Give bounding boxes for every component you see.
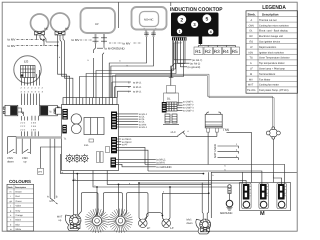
svg-text:CMV: CMV: [7, 157, 13, 160]
suppressor output wire: [272, 139, 274, 182]
feed strip1 from box top: [241, 172, 243, 183]
svg-text:MC: MC: [65, 27, 69, 30]
not used line 1: [218, 146, 239, 148]
svg-text:Description: Description: [15, 186, 27, 189]
svg-text:Gas ignition device: Gas ignition device: [259, 41, 281, 44]
svg-text:CMV: CMV: [22, 157, 28, 160]
cooktop panel: [171, 13, 219, 37]
terminal block M outline: [240, 183, 291, 211]
wire PT up: [41, 147, 62, 168]
svg-text:RP: RP: [95, 23, 99, 26]
oven lamp LF1: [139, 183, 148, 228]
cooling fan MVT: [65, 215, 81, 231]
svg-text:Blue: Blue: [16, 223, 21, 226]
relay RL2: [100, 152, 103, 163]
EG wires to plugs: [22, 94, 40, 106]
svg-text:to CN07-2: to CN07-2: [183, 104, 194, 107]
svg-text:TS+RG: TS+RG: [247, 89, 255, 92]
wires from MC2 base: [58, 35, 65, 72]
fan MV1 blower: [196, 219, 211, 234]
MV3 wires up: [118, 184, 120, 216]
connector CN01 (left): [62, 109, 68, 120]
svg-text:5: 5: [206, 17, 209, 23]
svg-text:PT: PT: [39, 171, 43, 174]
svg-text:to CMV-1: to CMV-1: [122, 138, 132, 141]
wire to M-L1 row2: [115, 87, 131, 98]
svg-text:to M-L1: to M-L1: [133, 91, 142, 94]
svg-text:Oven Temperature Selector: Oven Temperature Selector: [259, 57, 290, 60]
svg-text:LF: LF: [250, 46, 253, 49]
svg-text:MC: MC: [44, 27, 48, 30]
svg-text:to M-L1: to M-L1: [133, 86, 142, 89]
DL base line: [163, 124, 179, 126]
svg-text:n: n: [94, 184, 95, 187]
edge connector P left of board: [54, 108, 62, 114]
wires CN04 to labels: [117, 139, 121, 145]
dash-dot wire RP to MV: [80, 39, 92, 41]
svg-text:MV: MV: [249, 78, 253, 81]
plug interconnect wires: [18, 108, 24, 116]
ground hatch: [227, 208, 233, 211]
svg-text:IGN: IGN: [249, 51, 254, 54]
vertical mark line x118: [118, 2, 120, 28]
wire to M-L1 row1: [112, 82, 131, 98]
svg-text:2 2 2: 2 2 2: [20, 121, 26, 124]
interference suppressor: [266, 127, 280, 139]
connector CN05 (right bottom): [111, 158, 117, 168]
svg-text:LEGENDA: LEGENDA: [262, 5, 286, 11]
svg-text:White: White: [16, 228, 22, 231]
mains pair to suppressor: [113, 74, 275, 127]
burner 5: [203, 14, 212, 23]
wires CN05 to labels: [116, 159, 156, 167]
burner 4: [208, 29, 213, 34]
svg-text:to M-L1: to M-L1: [133, 81, 142, 84]
display unit DL body: [164, 93, 179, 105]
bridge LF2 to MV1: [162, 192, 208, 194]
plug P76: [40, 105, 60, 116]
bridge MVT-MV2: [78, 193, 98, 216]
svg-text:2: 2: [180, 17, 183, 23]
svg-text:R2: R2: [205, 49, 211, 54]
cooktop connector strip: [172, 37, 187, 40]
wires below plugs group1: [21, 116, 27, 121]
svg-text:down: down: [187, 222, 194, 225]
varistor V3: [80, 154, 89, 163]
wires strip to DL: [169, 41, 185, 86]
transformer T1: [84, 118, 104, 135]
svg-text:EG: EG: [250, 41, 254, 44]
tiny colour code letters: [59, 56, 215, 194]
svg-text:7S: 7S: [49, 110, 52, 113]
DL connector: [162, 102, 167, 113]
wire thermostat leg1 to comb: [109, 37, 146, 98]
wire to M-GROUND: [97, 47, 103, 49]
svg-text:R1: R1: [195, 49, 201, 54]
svg-text:1: 1: [179, 30, 181, 34]
burner 3: [191, 21, 198, 28]
svg-text:EC: EC: [250, 35, 254, 38]
svg-text:2 2 2: 2 2 2: [20, 129, 26, 132]
display unit DL top: [167, 86, 176, 94]
wire MC junction down: [46, 42, 59, 72]
svg-text:3 3 3 3 3 3 3: 3 3 3 3 3 3 3: [21, 90, 44, 93]
wire screw to ring: [229, 194, 231, 201]
thermo probe PT box: [38, 168, 44, 174]
wire to R4-7: [174, 43, 192, 60]
wire TSS to terminal block: [227, 132, 252, 182]
mains gray bus left: [16, 136, 61, 139]
varistor V1: [65, 154, 74, 163]
svg-text:R4: R4: [223, 49, 229, 54]
svg-text:DL: DL: [167, 97, 171, 101]
svg-text:sA C: sA C: [171, 131, 176, 134]
svg-text:Electronic Gauge unit: Electronic Gauge unit: [259, 35, 283, 38]
wire to M-L1 row3: [117, 91, 131, 97]
svg-text:R3: R3: [214, 49, 220, 54]
svg-text:Cooling fan motor: Cooling fan motor: [259, 84, 279, 87]
svg-text:7S: 7S: [11, 110, 14, 113]
svg-text:LF: LF: [170, 226, 174, 230]
ground terminal ring: [226, 200, 233, 207]
suppressor to strip3: [273, 175, 281, 185]
svg-text:Terminal Block: Terminal Block: [259, 73, 276, 76]
svg-text:to CN07-4: to CN07-4: [183, 110, 194, 113]
oven lamp LF2: [162, 187, 171, 228]
relay R2: [204, 47, 213, 55]
svg-text:M: M: [260, 211, 265, 217]
svg-text:to MV: to MV: [72, 38, 80, 42]
relay R3: [214, 47, 222, 55]
motor MC1 base: [35, 32, 45, 36]
svg-text:Fast plates Temp. (PT100): Fast plates Temp. (PT100): [259, 89, 289, 92]
legend rows: [247, 19, 290, 92]
micro switch CMV up: [22, 138, 31, 154]
not used line 2: [218, 151, 239, 153]
DL feet: [165, 114, 177, 123]
svg-text:CMV: CMV: [249, 24, 255, 27]
svg-text:down: down: [7, 160, 14, 163]
svg-text:Electr. card - Back display: Electr. card - Back display: [259, 30, 289, 33]
svg-text:Top temperature limiter: Top temperature limiter: [259, 62, 285, 65]
ignition device EG circle: [14, 56, 41, 83]
svg-text:A: A: [47, 195, 49, 198]
connector CN02 (left lower): [62, 125, 67, 134]
terminal strip L1: [242, 183, 251, 209]
fuse F1: [106, 147, 110, 153]
wires into bus: [21, 131, 38, 136]
svg-text:Orange: Orange: [16, 214, 24, 217]
svg-text:to GROUND: to GROUND: [157, 166, 172, 169]
wires CN03 to labels: [117, 114, 138, 127]
svg-text:TS: TS: [250, 57, 254, 60]
wire MC bundle to comb: [58, 72, 73, 98]
svg-text:m: m: [10, 191, 12, 194]
DL hatched block: [167, 102, 178, 111]
svg-text:Ignition block switches: Ignition block switches: [259, 51, 285, 54]
svg-text:Green: Green: [16, 200, 23, 203]
colours table frame: [7, 184, 34, 231]
svg-text:GROUND: GROUND: [220, 211, 232, 215]
svg-text:Thermal cut-out: Thermal cut-out: [259, 19, 277, 22]
capacitor C1: [71, 114, 81, 124]
svg-text:COLOURS: COLOURS: [9, 179, 31, 184]
svg-text:MVT: MVT: [248, 84, 254, 87]
svg-text:to CMV-2: to CMV-2: [122, 141, 132, 144]
wire to R4-2: [178, 41, 190, 63]
svg-text:Cooling fan micro switches: Cooling fan micro switches: [259, 24, 289, 27]
relay R5: [232, 47, 240, 55]
connector CN04 (right mid): [111, 137, 117, 153]
colours rows: [10, 191, 24, 232]
connector CN03 (right top): [111, 112, 117, 130]
dash-dot wire to MV 1: [17, 38, 45, 40]
run h4: [107, 171, 211, 185]
svg-text:Violet: Violet: [16, 205, 22, 208]
mains line right of board: [119, 135, 217, 137]
svg-text:2 2 2: 2 2 2: [20, 125, 26, 128]
varistor V2: [73, 154, 82, 163]
svg-text:Simb: Simb: [8, 186, 14, 189]
labels CN03 group: [139, 113, 148, 129]
feed strip1 from lamp line: [139, 182, 242, 184]
svg-text:to MV: to MV: [8, 44, 16, 48]
svg-text:R5: R5: [232, 49, 238, 54]
not used line 3: [218, 158, 239, 160]
enclosure box bottom right: [211, 172, 296, 218]
wires below plugs group2: [32, 116, 38, 121]
svg-text:2 2 2 2 2 2 2: 2 2 2 2 2 2 2: [21, 87, 44, 90]
svg-text:LF: LF: [147, 226, 151, 230]
feed strip2: [148, 171, 262, 184]
svg-text:F3A: F3A: [84, 144, 89, 147]
dash-dot wire to MV 2: [17, 45, 58, 47]
thermostat NO+NC inner: [140, 12, 159, 27]
wire CN04 down a: [117, 147, 145, 164]
thermostat TS box: [205, 112, 222, 128]
svg-text:to M-L1: to M-L1: [139, 126, 148, 129]
svg-text:g: g: [127, 64, 128, 67]
safety cutout A contacts: [178, 131, 186, 137]
labels CN04 group: [122, 138, 132, 147]
MV1 mount: [201, 228, 210, 232]
svg-text:M: M: [250, 73, 252, 76]
relay R1: [194, 47, 203, 55]
burner 1: [177, 29, 182, 34]
wires from MC1 base: [37, 35, 47, 46]
svg-text:to CN07-1: to CN07-1: [183, 101, 194, 104]
motor MC2: [51, 13, 70, 32]
svg-text:up: up: [24, 160, 27, 163]
feed strip3: [145, 165, 285, 185]
svg-text:2 4 8: 2 4 8: [31, 125, 37, 128]
wire cooktop strip to comb b: [86, 41, 176, 98]
thermostat neck legs: [144, 29, 157, 38]
terminal strip N: [259, 183, 268, 209]
svg-text:Simb.: Simb.: [248, 12, 256, 16]
wire RP left stub to comb: [93, 58, 95, 98]
svg-text:INDUCTION COOKTOP: INDUCTION COOKTOP: [170, 7, 223, 13]
wires DL to CN07 labels: [177, 103, 183, 111]
bridge MV3-LF1: [124, 193, 148, 219]
fan motor MV2: [85, 209, 109, 233]
wire TS foot down: [207, 136, 209, 164]
vertical mark line x170: [170, 2, 172, 6]
svg-text:NO+NC: NO+NC: [144, 19, 154, 22]
svg-text:Black: Black: [16, 219, 22, 222]
power board outline: [62, 105, 119, 171]
MVT mount: [70, 224, 80, 228]
feeds to MT switch: [50, 139, 55, 198]
run h3: [93, 171, 228, 188]
svg-text:LF: LF: [250, 68, 253, 71]
RP terminal stubs: [96, 33, 105, 44]
wire to ground: [181, 41, 188, 67]
thermostat terminals: [144, 33, 156, 35]
bridge LF1-LF2: [147, 213, 163, 216]
svg-text:Description: Description: [262, 12, 279, 16]
TS feet: [207, 128, 210, 132]
svg-text:to CN07-3: to CN07-3: [183, 107, 194, 110]
EG output wires: [22, 70, 40, 86]
relay RL1: [97, 152, 100, 163]
wire RP right stub to comb: [103, 53, 105, 98]
plug P75: [3, 105, 18, 116]
dash-dot wire to MV right: [109, 42, 142, 44]
thermostat NO+NC outer shell: [132, 7, 167, 30]
svg-text:4: 4: [210, 30, 212, 34]
cooktop power stub: [199, 37, 203, 45]
wire CN04 down b: [117, 150, 148, 171]
motor MC1: [31, 14, 49, 32]
micro switch CMV down: [8, 137, 17, 154]
small component D1: [89, 139, 94, 142]
run h2: [73, 180, 246, 184]
svg-text:Oven lamp + Pilot lamp: Oven lamp + Pilot lamp: [259, 68, 286, 71]
bridge MV2-MV3: [101, 193, 123, 216]
run h1: [61, 154, 204, 174]
wire RP stub left down: [94, 44, 105, 54]
svg-text:2 4 8: 2 4 8: [31, 129, 37, 132]
svg-text:to MV: to MV: [8, 38, 16, 42]
svg-text:to M-GROUND: to M-GROUND: [105, 46, 126, 50]
MV1 wires up: [202, 172, 209, 219]
svg-text:EG: EG: [24, 60, 29, 64]
svg-text:NOT USED: NOT USED: [214, 144, 217, 158]
svg-text:2 4 8: 2 4 8: [31, 121, 37, 124]
wire cooktop strip to comb c: [80, 41, 184, 98]
capacitor C2: [71, 124, 81, 134]
terminal strip PE: [277, 183, 286, 209]
hotplate RP: [81, 8, 116, 33]
wires TS to bus: [208, 132, 217, 136]
fan motor MV3: [108, 209, 132, 233]
svg-text:Brown: Brown: [16, 191, 23, 194]
svg-text:TSS: TSS: [223, 128, 229, 132]
burner 2: [177, 15, 186, 24]
pin labels group1: [20, 121, 36, 131]
relay feed rail: [199, 44, 236, 47]
legend table frame: [246, 11, 298, 93]
EG inner module: [21, 66, 36, 78]
top pin comb connector: [63, 98, 117, 105]
svg-text:B: B: [56, 195, 58, 198]
svg-text:(to ground): (to ground): [188, 66, 201, 69]
wire cooktop strip to comb a: [96, 41, 174, 98]
svg-text:to MV: to MV: [123, 41, 131, 45]
motor MC2 base: [55, 32, 65, 36]
svg-text:g: g: [129, 182, 130, 185]
svg-text:to PT: to PT: [122, 144, 128, 147]
ground screw: [228, 185, 231, 194]
MV2 wires up: [96, 187, 98, 216]
relay R4: [223, 47, 231, 55]
svg-text:Fan Motor: Fan Motor: [259, 78, 271, 81]
svg-text:Rapid selectors: Rapid selectors: [259, 46, 277, 49]
wire thermostat leg2 to comb: [111, 37, 154, 98]
svg-text:(to R4-2): (to R4-2): [190, 62, 200, 65]
labels to CN07: [183, 101, 194, 113]
MVT wires up: [73, 171, 77, 215]
